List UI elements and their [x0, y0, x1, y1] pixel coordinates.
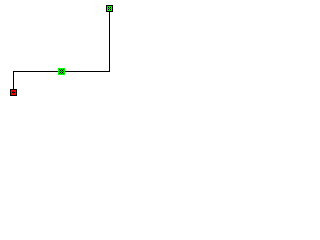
wire (left vertical segment, down to port P2)	[13, 72, 14, 89]
wire (horizontal segment, node A to node B)	[13, 71, 110, 72]
wire (right vertical segment, up to port P1)	[109, 12, 110, 72]
port P1 (green pin with X, top right)	[106, 5, 113, 12]
port P2 (red connected pin with cross, bottom left)	[10, 89, 17, 96]
node A (green checkered midpoint handle on wire)	[58, 68, 65, 75]
